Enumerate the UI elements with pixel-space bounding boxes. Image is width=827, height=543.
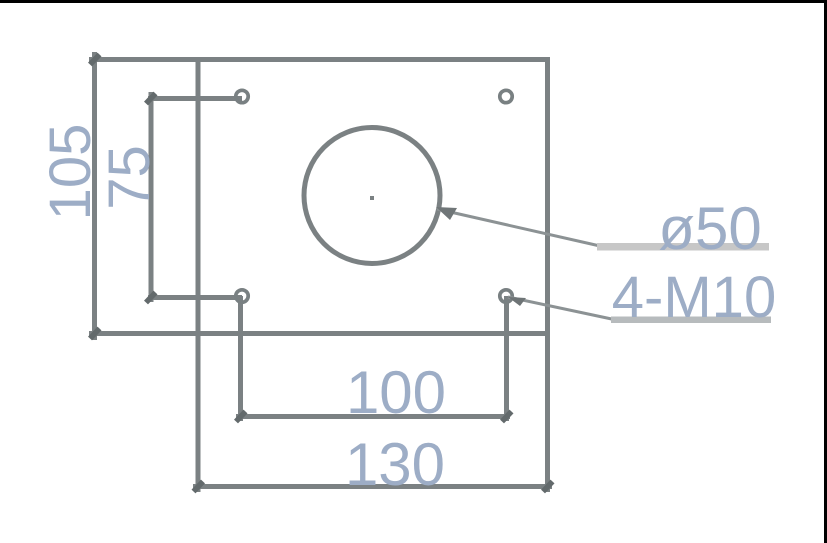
svg-text:4-M10: 4-M10	[612, 265, 776, 330]
svg-text:75: 75	[97, 145, 162, 210]
svg-text:130: 130	[345, 431, 445, 498]
svg-text:100: 100	[346, 359, 446, 426]
svg-text:ø50: ø50	[658, 195, 761, 262]
svg-text:105: 105	[38, 124, 103, 221]
